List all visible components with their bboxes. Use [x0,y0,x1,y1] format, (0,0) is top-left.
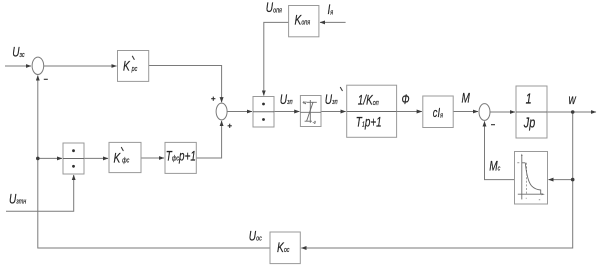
svg-text:1: 1 [526,90,532,107]
svg-text:Uзс: Uзс [12,44,25,60]
svg-text:Uопя: Uопя [266,0,283,15]
svg-text:Jp: Jp [523,114,535,131]
svg-text:Uзтн: Uзтн [9,191,27,207]
svg-text:Iя: Iя [328,1,334,17]
svg-text:w: w [569,91,577,107]
svg-text:Uос: Uос [249,228,263,244]
svg-text:Tфсp+1: Tфсp+1 [166,148,196,164]
svg-text:+u: +u [302,99,306,105]
svg-text:Ф: Ф [402,91,410,107]
svg-text:M: M [462,90,471,106]
svg-text:Uзп: Uзп [325,91,338,107]
svg-text:Mс: Mс [489,158,501,174]
svg-text:Uзп: Uзп [280,91,293,107]
svg-text:T1p+1: T1p+1 [356,114,382,130]
